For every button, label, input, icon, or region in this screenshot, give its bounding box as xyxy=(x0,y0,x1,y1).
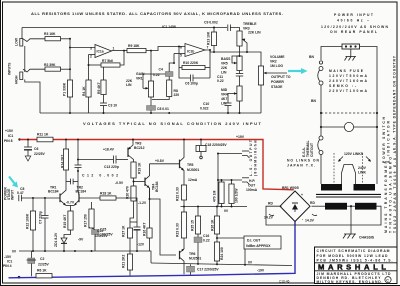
svg-text:TR6: TR6 xyxy=(189,252,196,256)
resistor R19 1K xyxy=(131,162,142,186)
svg-text:+: + xyxy=(89,225,91,229)
svg-text:IC1a: IC1a xyxy=(97,50,104,54)
wire input node vertical xyxy=(69,39,71,80)
ground preamp supply xyxy=(25,156,31,161)
svg-text:C16: C16 xyxy=(203,234,209,238)
note no links japan xyxy=(287,159,320,168)
svg-text:ALL RESISTORS 1/4W UNLESS STAT: ALL RESISTORS 1/4W UNLESS STATED. ALL CA… xyxy=(31,11,283,16)
capacitor C11 0.22 xyxy=(217,71,243,87)
svg-text:R19 1K: R19 1K xyxy=(137,162,141,174)
svg-text:R13 10K: R13 10K xyxy=(206,31,210,45)
arrow power stage input xyxy=(4,177,18,201)
capacitor C15 100/25V xyxy=(95,204,145,251)
svg-text:R4 1K: R4 1K xyxy=(82,86,86,96)
bridge BR1 W005 xyxy=(280,186,310,222)
label LS output xyxy=(249,139,257,176)
svg-text:BC184: BC184 xyxy=(48,190,59,194)
svg-text:R12 100K: R12 100K xyxy=(26,213,30,229)
resistor R13 10K xyxy=(206,27,216,54)
svg-text:LIN: LIN xyxy=(126,83,132,87)
resistor R8 220 shunt xyxy=(152,80,179,100)
capacitor C2 22/25V xyxy=(27,251,50,276)
resistor R20 470 xyxy=(125,186,146,228)
capacitor C3 10 xyxy=(100,95,117,114)
junction C4 tie xyxy=(173,62,175,64)
svg-text:14.3V: 14.3V xyxy=(305,219,315,223)
svg-text:C9 0.002: C9 0.002 xyxy=(204,21,218,25)
svg-text:C6 100p: C6 100p xyxy=(185,82,198,86)
resistor R25 15 zobel xyxy=(191,207,201,238)
svg-text:VR4: VR4 xyxy=(221,93,228,97)
svg-text:-0.5V: -0.5V xyxy=(115,181,124,185)
wire TR5 base xyxy=(150,163,180,165)
svg-text:MJ2501: MJ2501 xyxy=(189,257,201,261)
capacitor C6 100p xyxy=(179,68,210,86)
resistor R14 2K2 xyxy=(61,139,69,182)
svg-text:SEMKO :-: SEMKO :- xyxy=(329,84,356,88)
svg-text:R2 39K: R2 39K xyxy=(44,63,56,67)
svg-text:R16 4K7: R16 4K7 xyxy=(142,223,146,236)
resistor R21 2K2 xyxy=(121,254,132,276)
svg-text:MILTON KEYNES, ENGLAND.: MILTON KEYNES, ENGLAND. xyxy=(317,280,383,284)
svg-text:+19V: +19V xyxy=(236,135,245,139)
svg-text:IC1b: IC1b xyxy=(187,50,194,54)
resistor 470 1M xyxy=(213,179,224,207)
svg-text:C8 0.01: C8 0.01 xyxy=(157,107,169,111)
svg-text:R15 4K7: R15 4K7 xyxy=(63,215,67,228)
svg-text:C10: C10 xyxy=(203,102,209,106)
svg-text:22K LIN: 22K LIN xyxy=(248,31,261,35)
svg-text:POWER: POWER xyxy=(271,80,284,84)
svg-text:100mA: 100mA xyxy=(246,188,258,192)
zener ZD1 8.2V xyxy=(54,232,67,251)
svg-text:JAPAN T.X.: JAPAN T.X. xyxy=(287,164,315,168)
svg-text:LIN: LIN xyxy=(221,102,227,106)
svg-text:R27 1K: R27 1K xyxy=(121,225,125,237)
svg-text:+0.8V: +0.8V xyxy=(155,159,165,163)
node emitters -0.7V xyxy=(66,201,75,212)
resistor R11 1K xyxy=(37,133,53,142)
wire jack sleeves xyxy=(24,46,26,72)
svg-text:ZD1 8.2V: ZD1 8.2V xyxy=(54,232,58,247)
wire low jack drop xyxy=(21,28,23,39)
resistor R27 1K xyxy=(121,225,132,254)
svg-text:1M LOG: 1M LOG xyxy=(270,64,283,68)
wire pin5 node vertical xyxy=(173,54,175,64)
svg-text:120V LINKS: 120V LINKS xyxy=(344,152,364,156)
svg-text:R24 100: R24 100 xyxy=(220,247,224,260)
svg-text:R17 150: R17 150 xyxy=(84,214,88,227)
pot TREBLE VR3 22K LIN xyxy=(237,22,261,53)
fuse mains xyxy=(311,61,368,111)
resistor R24 100 xyxy=(214,242,224,264)
transistor TR6 MJ2501 xyxy=(180,249,202,274)
svg-text:C15: C15 xyxy=(97,229,103,233)
svg-text:3: 3 xyxy=(90,47,92,51)
resistor R18 1K feedback xyxy=(100,192,137,205)
resistor P1 330K xyxy=(63,80,73,113)
svg-text:VR1: VR1 xyxy=(136,77,143,81)
svg-text:C2: C2 xyxy=(40,257,44,261)
junctions on preamp ground bus xyxy=(69,112,71,114)
transistor TR5 MJ3001 xyxy=(180,139,200,186)
svg-text:4K7: 4K7 xyxy=(221,97,227,101)
wire secondary left to bridge xyxy=(305,201,325,223)
resistor R7 5k6 feedback xyxy=(89,50,126,68)
jack LS output xyxy=(217,151,250,207)
svg-text:VR2: VR2 xyxy=(270,60,277,64)
resistor R2 39K xyxy=(44,63,70,71)
transistor TR3 BC212 xyxy=(103,139,145,163)
svg-text:C16-46: C16-46 xyxy=(279,280,290,284)
resistor R3 16K xyxy=(44,32,70,41)
wire neutral drop xyxy=(360,47,378,112)
pot MID VR4 4K7 LIN xyxy=(221,86,242,113)
svg-text:INPUT: INPUT xyxy=(11,189,15,200)
transformer primary windings xyxy=(321,184,375,191)
jack HIGH xyxy=(15,69,46,84)
svg-text:C3 10: C3 10 xyxy=(108,104,117,108)
svg-text:C7 220p: C7 220p xyxy=(39,211,43,224)
svg-text:-1.2V: -1.2V xyxy=(138,201,147,205)
svg-text:R21 2K2: R21 2K2 xyxy=(121,255,125,268)
transformer secondary windings xyxy=(325,203,377,210)
resistor R10 220K feedback xyxy=(178,46,210,79)
svg-text:100/25V: 100/25V xyxy=(95,234,108,238)
svg-text:+: + xyxy=(301,193,303,197)
svg-text:RD: RD xyxy=(268,202,273,206)
wire +15V red rail xyxy=(20,140,294,190)
resistor 100 1/2W xyxy=(229,179,238,207)
resistor R4 1K xyxy=(82,80,91,113)
wire secondary centre tap xyxy=(347,205,355,234)
svg-text:2: 2 xyxy=(90,55,92,59)
link 240V xyxy=(342,165,367,175)
pot VOLUME VR2 1M LOG xyxy=(258,55,287,113)
capacitor C17 2200/25V xyxy=(187,264,265,275)
svg-text:0.22: 0.22 xyxy=(217,79,224,83)
svg-text:R18 1K: R18 1K xyxy=(100,192,112,196)
resistor R26 1K xyxy=(211,207,220,243)
svg-text:IC1: IC1 xyxy=(8,134,13,138)
capacitor C7 220p xyxy=(39,197,49,251)
wire 0V bus xyxy=(12,250,151,264)
transistor TR4 BC184 xyxy=(115,164,159,199)
svg-text:+18.4V: +18.4V xyxy=(103,148,115,152)
label mains transformer xyxy=(384,150,397,233)
svg-text:CUTOUT: CUTOUT xyxy=(310,142,314,157)
svg-text:INPUTS: INPUTS xyxy=(8,62,12,75)
svg-text:BN: BN xyxy=(311,99,316,103)
svg-text:0V: 0V xyxy=(12,250,17,254)
wire 0V bus lower xyxy=(151,261,292,266)
lamp indicator xyxy=(320,122,378,131)
svg-text:R7 5k6: R7 5k6 xyxy=(102,59,113,63)
svg-text:C18 2200/25V: C18 2200/25V xyxy=(205,143,227,147)
svg-text:MID: MID xyxy=(221,88,228,92)
svg-text:470 1M: 470 1M xyxy=(213,191,217,202)
svg-text:BR1 W005: BR1 W005 xyxy=(282,186,299,190)
svg-text:22/25V: 22/25V xyxy=(34,152,45,156)
wire jack ground to bus xyxy=(25,80,40,114)
svg-text:0.022: 0.022 xyxy=(200,107,209,111)
svg-text:R20 470: R20 470 xyxy=(125,186,129,199)
pot GAIN VR1 22K LIN xyxy=(126,51,154,97)
svg-text:1: 1 xyxy=(113,47,115,51)
junction pin3 tap xyxy=(69,47,71,49)
wire pin5 xyxy=(174,53,185,55)
wire pin2 node vertical xyxy=(88,55,90,81)
junction R2 node xyxy=(69,68,71,70)
svg-text:0V: 0V xyxy=(248,261,253,265)
capacitor C10 0.022 xyxy=(200,94,232,114)
svg-text:R22 0.33: R22 0.33 xyxy=(176,187,180,201)
svg-text:C4: C4 xyxy=(159,68,163,72)
svg-text:R3 16K: R3 16K xyxy=(44,32,56,36)
capacitor C15 100/25V body xyxy=(89,225,114,251)
wire IC1a output xyxy=(112,50,128,52)
svg-text:7: 7 xyxy=(207,46,209,50)
svg-text:0dBm APPROX: 0dBm APPROX xyxy=(246,244,271,248)
capacitor C6 22/25V xyxy=(24,139,45,157)
svg-text:BN: BN xyxy=(309,55,314,59)
resistor R17 150 xyxy=(78,202,95,242)
capacitor C13 220p xyxy=(77,156,128,169)
DI out box xyxy=(217,236,281,265)
svg-text:0.47: 0.47 xyxy=(17,191,24,195)
svg-text:C12 0.002: C12 0.002 xyxy=(82,174,118,178)
svg-text:POWER INPUT: POWER INPUT xyxy=(334,13,374,17)
junctions on output bus xyxy=(197,206,199,208)
junction feedback node xyxy=(88,64,90,66)
svg-text:HIGH: HIGH xyxy=(15,75,19,84)
resistor R16 4K7 xyxy=(142,188,152,251)
wire dashed switch link xyxy=(320,111,378,125)
svg-text:VOLTAGES TYPICAL NO SIGNAL CON: VOLTAGES TYPICAL NO SIGNAL CONDITION 240… xyxy=(83,121,262,126)
svg-text:H.P.: H.P. xyxy=(249,179,255,183)
svg-text:E.S.A. TYPE DEPENDANT ON COUNT: E.S.A. TYPE DEPENDANT ON COUNTRY xyxy=(392,55,396,150)
svg-text:-12V: -12V xyxy=(137,243,145,247)
svg-text:CIRCUIT SCHEMATIC DIAGRAM: CIRCUIT SCHEMATIC DIAGRAM xyxy=(317,249,390,253)
svg-text:-15V: -15V xyxy=(4,255,12,259)
svg-text:OUTPUT TO: OUTPUT TO xyxy=(271,75,291,79)
svg-text:C6: C6 xyxy=(34,147,38,151)
resistor R6 1K xyxy=(36,269,52,278)
svg-text:VR5: VR5 xyxy=(221,62,228,66)
wire -15V blue rail xyxy=(9,221,296,278)
svg-text:STAGE: STAGE xyxy=(271,85,283,89)
transformer core xyxy=(316,194,381,197)
switch thermal cutout xyxy=(302,127,323,184)
resistor R12 100K xyxy=(26,197,36,251)
svg-text:FOR MODEL 5005W 12W LEAD: FOR MODEL 5005W 12W LEAD xyxy=(317,254,389,258)
capacitor C4 0.022 xyxy=(143,63,174,88)
node input mix xyxy=(69,38,71,40)
label power switch xyxy=(382,116,391,163)
svg-text:P1 330K: P1 330K xyxy=(63,82,67,96)
svg-text:22/25V: 22/25V xyxy=(38,263,49,267)
svg-text:14.2V: 14.2V xyxy=(264,216,274,220)
wire top rail xyxy=(22,27,227,29)
svg-text:5: 5 xyxy=(180,54,182,58)
wire neutral to primary xyxy=(376,127,378,184)
label 120V links xyxy=(338,152,371,162)
junction IC1b output xyxy=(209,49,211,51)
svg-text:R11 1K: R11 1K xyxy=(37,133,49,137)
svg-text:+15V: +15V xyxy=(5,129,14,133)
wire to pin3 xyxy=(70,47,95,49)
svg-text:RD: RD xyxy=(310,201,315,205)
transistor TR1 xyxy=(48,182,66,206)
arrow output to power stage xyxy=(271,68,308,89)
svg-text:PIN 4: PIN 4 xyxy=(3,264,12,268)
svg-text:TS102 JAPAN TS019 E.S.A: TS102 JAPAN TS019 E.S.A xyxy=(393,150,397,233)
svg-text:12mA: 12mA xyxy=(188,178,198,182)
resistor R23 0.33 3W xyxy=(176,212,187,249)
svg-text:0V: 0V xyxy=(224,209,229,213)
ground chassis xyxy=(343,234,375,240)
svg-text:6: 6 xyxy=(180,46,182,50)
svg-text:MAINS FUSE: MAINS FUSE xyxy=(329,69,364,73)
capacitor C9 0.002 xyxy=(204,21,240,32)
svg-text:-: - xyxy=(302,217,303,221)
op-amp IC1b xyxy=(180,44,209,58)
op-amp IC1a xyxy=(90,25,176,59)
svg-text:R9 18K: R9 18K xyxy=(128,44,140,48)
ground mains earth xyxy=(345,49,357,61)
node -15V label xyxy=(3,255,20,279)
svg-text:CHASSIS: CHASSIS xyxy=(359,236,375,240)
svg-text:0.22: 0.22 xyxy=(203,239,210,243)
wire driver to TR6 base xyxy=(150,199,177,255)
svg-text:OUT: OUT xyxy=(248,184,256,188)
capacitor C18 2200/25V xyxy=(196,139,227,159)
svg-text:IC1 1458: IC1 1458 xyxy=(162,25,176,29)
capacitor collector bridge xyxy=(66,179,78,185)
svg-text:LOW: LOW xyxy=(15,37,19,46)
wire IC1b output bus xyxy=(205,50,261,66)
svg-text:-19V: -19V xyxy=(257,269,265,273)
note power input xyxy=(321,13,389,34)
resistor R9 18K xyxy=(127,44,185,53)
svg-text:22K: 22K xyxy=(221,66,228,70)
svg-text:LIN: LIN xyxy=(221,71,227,75)
svg-text:C17 2200/25V: C17 2200/25V xyxy=(197,268,219,272)
resistor R5 4K7 xyxy=(97,67,106,94)
wire preamp ground bus xyxy=(40,112,261,114)
svg-text:(8OHMS/8ohm: (8OHMS/8ohm xyxy=(253,140,257,176)
junction driver node xyxy=(149,198,151,200)
node +15V label xyxy=(4,129,21,143)
capacitor C8 0.01 xyxy=(147,97,169,113)
resistor R22 0.33 3W xyxy=(176,185,187,212)
wire links dashed xyxy=(334,153,363,184)
svg-text:R5 4K7: R5 4K7 xyxy=(97,82,101,94)
wire secondary right loop xyxy=(264,202,381,226)
svg-text:VOLUME: VOLUME xyxy=(270,55,285,59)
pot BASS VR5 22K LIN xyxy=(221,46,242,75)
resistor R15 4K7 xyxy=(63,211,73,238)
svg-text:BC212: BC212 xyxy=(134,146,145,150)
svg-text:NO LINKS ON: NO LINKS ON xyxy=(287,159,320,163)
wire pin2 xyxy=(89,54,96,56)
jack HP out xyxy=(217,178,258,192)
svg-text:-9V: -9V xyxy=(78,238,84,242)
svg-text:BC184: BC184 xyxy=(155,181,159,192)
wire output bus xyxy=(181,206,248,208)
svg-text:D.I. OUT: D.I. OUT xyxy=(247,239,261,243)
jack LOW xyxy=(15,37,46,46)
capacitor C12 0.002 xyxy=(75,139,119,178)
capacitor C16 0.22 xyxy=(194,234,210,264)
svg-text:220: 220 xyxy=(174,93,180,97)
svg-text:BASS: BASS xyxy=(221,57,231,61)
svg-text:R10 220K: R10 220K xyxy=(183,61,199,65)
svg-text:-0.7V: -0.7V xyxy=(66,201,75,205)
svg-text:R25 15: R25 15 xyxy=(191,220,195,231)
svg-text:IC1: IC1 xyxy=(7,260,12,264)
transistor TR2 xyxy=(74,168,100,206)
svg-text:100 1/2W: 100 1/2W xyxy=(234,188,238,203)
svg-text:MJ3001: MJ3001 xyxy=(187,168,199,172)
svg-text:R23 0.33: R23 0.33 xyxy=(176,223,180,237)
svg-text:TREBLE: TREBLE xyxy=(243,22,257,26)
svg-text:C13 220p: C13 220p xyxy=(104,165,119,169)
capacitor C8 0.47 xyxy=(17,187,60,201)
svg-text:PIN 8: PIN 8 xyxy=(4,139,13,143)
svg-text:TR5: TR5 xyxy=(187,163,194,167)
svg-text:R6 1K: R6 1K xyxy=(37,269,47,273)
wire live drop xyxy=(309,47,342,61)
svg-text:BC184: BC184 xyxy=(76,190,87,194)
svg-text:120/220/240V AS SHOWN: 120/220/240V AS SHOWN xyxy=(321,25,389,29)
connector mains xyxy=(342,44,360,49)
